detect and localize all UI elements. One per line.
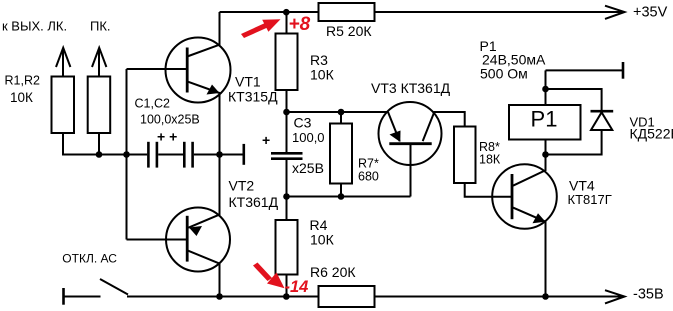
VT2 emitter diagonal and lead — [188, 155, 219, 228]
wire R4 bottom lead — [286, 275, 288, 297]
transistor VT2 base bar — [186, 216, 189, 262]
svg-text:+35V: +35V — [633, 5, 668, 21]
wire R3 bottom lead — [286, 90, 288, 112]
wire R4 top lead — [286, 197, 288, 221]
transistor VT2 circle — [166, 208, 230, 272]
node row2 C3 bottom — [283, 193, 290, 200]
node row1 R7 top — [338, 109, 345, 116]
node R2 bottom — [96, 151, 103, 158]
svg-text:+8: +8 — [289, 14, 311, 35]
svg-text:C1,C2: C1,C2 — [135, 97, 170, 111]
wire R3 top lead — [286, 12, 288, 34]
svg-text:к ВЫХ. ЛК.: к ВЫХ. ЛК. — [2, 19, 67, 34]
wire base link VT1-VT2 — [126, 69, 128, 240]
svg-text:10К: 10К — [310, 67, 335, 83]
node bottom rail R4 — [283, 293, 290, 300]
VT4 emitter arrow — [533, 213, 546, 223]
terminal bar (cap row stub) — [243, 144, 246, 165]
svg-text:500 Ом: 500 Ом — [480, 66, 528, 82]
VT3 emitter arrow — [390, 131, 401, 143]
wire C2 to emitter column — [194, 154, 244, 156]
wire VD1 bottom branch — [546, 130, 602, 155]
terminal bar (relay contact) — [622, 62, 625, 79]
svg-text:VT3 КТ361Д: VT3 КТ361Д — [371, 80, 451, 96]
svg-text:R7*: R7* — [358, 157, 379, 171]
relay P1 coil box — [509, 105, 581, 140]
svg-text:P1: P1 — [531, 107, 558, 132]
node bottom rail VT2 — [216, 293, 223, 300]
input arrow R2 — [98, 48, 100, 77]
wire R7 bottom lead — [340, 184, 342, 197]
svg-text:КД522Б: КД522Б — [630, 126, 673, 142]
wire relay top lead — [545, 70, 547, 105]
wire C3 bottom lead — [286, 160, 288, 197]
wire VD1 top branch — [546, 89, 602, 111]
svg-text:18К: 18К — [479, 153, 501, 167]
node row1 C3 top — [283, 109, 290, 116]
red annotation arrow +8 — [241, 19, 281, 38]
wire R2 bottom lead — [98, 133, 100, 155]
wire R1 bottom lead — [63, 133, 99, 155]
resistor R1 — [52, 77, 75, 134]
VT1 emitter arrow — [207, 85, 220, 95]
red annotation arrow -14 — [253, 263, 285, 289]
svg-text:10К: 10К — [310, 232, 335, 248]
svg-text:ОТКЛ. АС: ОТКЛ. АС — [62, 252, 117, 266]
transistor VT1 base bar — [186, 48, 189, 93]
svg-text:КТ315Д: КТ315Д — [228, 89, 278, 105]
wire node row 1 (R3/C3 to VT3 emitter) — [287, 111, 389, 113]
diode VD1 cathode bar — [591, 110, 614, 113]
svg-text:VT2: VT2 — [229, 178, 255, 194]
VT2 emitter arrow — [189, 226, 202, 236]
node emitters cap row — [216, 151, 223, 158]
svg-text:VT1: VT1 — [235, 74, 261, 90]
wire C1 to C2 — [158, 154, 183, 156]
transistor VT4 base bar — [511, 174, 514, 219]
node relay/diode top — [542, 86, 549, 93]
resistor R7 — [330, 124, 352, 184]
wire cap row (R2 to C1) — [99, 154, 147, 156]
wire VT2 base — [127, 239, 188, 241]
transistor VT3 circle — [379, 102, 442, 165]
wire bottom rail (switch to R6) — [127, 296, 320, 298]
-35V supply arrow — [605, 290, 625, 303]
capacitor C1 — [148, 142, 157, 168]
svg-text:+ +: + + — [157, 129, 177, 145]
VT3 collector diagonal and lead to R8 — [423, 112, 465, 141]
resistor R2 — [88, 77, 111, 134]
VT4 collector diagonal and lead — [513, 155, 546, 186]
svg-text:R1,R2: R1,R2 — [5, 74, 40, 88]
capacitor C3 — [271, 153, 303, 158]
switch ОТКЛ. АС blade — [100, 279, 128, 295]
wire bottom rail right (R6 to -35V) — [375, 296, 624, 298]
wire C3 top lead — [286, 112, 288, 152]
VT4 emitter diagonal and lead — [513, 208, 546, 297]
svg-text:КТ817Г: КТ817Г — [568, 192, 612, 207]
svg-text:680: 680 — [358, 170, 379, 184]
svg-text:R5 20К: R5 20К — [326, 23, 372, 39]
node row2 R7 bottom — [338, 193, 345, 200]
resistor R4 — [276, 220, 298, 275]
svg-text:ПК.: ПК. — [90, 19, 111, 34]
resistor R5 — [319, 3, 375, 21]
svg-text:100,0x25В: 100,0x25В — [140, 113, 200, 127]
wire top rail left (VT1 collector to R5) — [220, 11, 320, 13]
wire relay contact stub — [546, 69, 624, 71]
node top rail R3 junction — [283, 9, 290, 16]
svg-text:100,0: 100,0 — [292, 130, 325, 145]
svg-text:КТ361Д: КТ361Д — [229, 194, 279, 210]
node base link cap row — [123, 151, 130, 158]
transistor VT3 base bar — [389, 142, 431, 145]
transistor VT1 circle — [166, 38, 231, 103]
wire R7 top lead — [340, 112, 342, 124]
+35V supply arrow — [605, 6, 625, 19]
svg-text:+: + — [262, 132, 270, 148]
transistor VT4 circle — [492, 164, 557, 229]
wire R8 to VT4 base — [465, 183, 512, 197]
VT1 collector diagonal and lead — [187, 12, 219, 57]
resistor R6 — [319, 286, 375, 307]
svg-text:x25В: x25В — [292, 160, 324, 176]
VT2 collector diagonal and lead — [187, 250, 219, 296]
terminal bar (bottom rail left) — [62, 288, 65, 305]
svg-text:-14: -14 — [285, 278, 309, 296]
VT3 emitter diagonal — [388, 112, 400, 141]
svg-text:-35В: -35В — [633, 287, 664, 303]
wire relay bottom lead — [545, 140, 547, 155]
node relay/diode bottom — [542, 151, 549, 158]
wire VT3 base lead — [410, 144, 412, 197]
wire VT1 base — [127, 68, 188, 70]
input arrow R1 — [62, 48, 64, 77]
svg-text:C3: C3 — [294, 115, 312, 131]
svg-text:10К: 10К — [10, 90, 33, 105]
resistor R3 — [276, 34, 298, 91]
wire bottom rail left — [64, 296, 101, 298]
wire top rail right (R5 to +35V) — [375, 11, 624, 13]
diode VD1 triangle — [591, 112, 612, 130]
svg-text:R6 20К: R6 20К — [310, 264, 356, 280]
node bottom rail VT4 — [542, 293, 549, 300]
VT1 emitter diagonal and lead — [187, 81, 219, 154]
wire node row 2 (C3/R7/R4 to VT3 base) — [287, 196, 411, 198]
capacitor C2 — [184, 142, 192, 168]
resistor R8 — [454, 127, 476, 184]
